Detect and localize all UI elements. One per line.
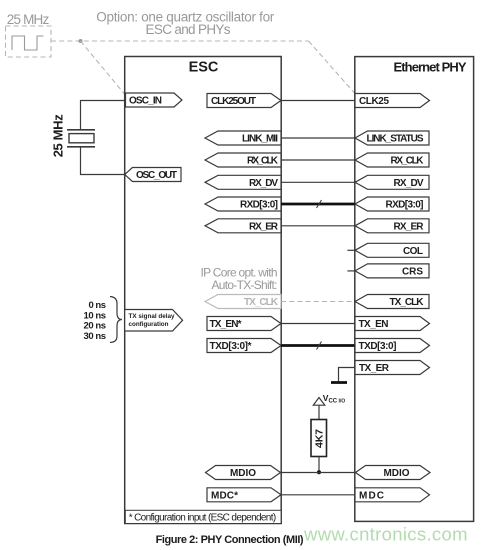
pin RX_CLK (PHY) (355, 153, 429, 167)
svg-text:TX_EN*: TX_EN* (210, 319, 242, 330)
pin MDIO (ESC, bidirectional) (206, 466, 281, 480)
wire TX_EN (281, 323, 355, 325)
stub wire COL (347, 249, 355, 251)
footnote box: Configuration input (ESC dependent) (125, 510, 281, 523)
svg-text:CLK25OUT: CLK25OUT (211, 96, 256, 107)
bus slash TXD (317, 342, 322, 350)
svg-text:RX_CLK: RX_CLK (391, 156, 425, 167)
pin CLK25OUT (207, 94, 281, 108)
pin TXD[3:0] (PHY) (355, 339, 430, 353)
svg-text:ESC and PHYs: ESC and PHYs (146, 22, 231, 37)
junction dot MDIO (317, 470, 321, 474)
pin RX_DV (ESC) (205, 175, 281, 189)
wire OSC_IN to crystal (81, 101, 126, 130)
wire RX_ER (281, 225, 355, 227)
svg-text:Figure 2: PHY Connection (MII): Figure 2: PHY Connection (MII) (156, 534, 304, 546)
svg-text:25 MHz: 25 MHz (51, 114, 66, 158)
wire CLK25OUT to CLK25 (281, 100, 355, 102)
svg-text:RX_ER: RX_ER (249, 221, 279, 232)
dashed option wire horizontal (51, 40, 309, 42)
oscillator option dashed box (6, 26, 52, 57)
pin RXD[3:0] (ESC) (205, 197, 281, 211)
pin CRS (355, 264, 429, 278)
svg-text:TX_EN: TX_EN (359, 319, 389, 330)
svg-text:Auto-TX-Shift:: Auto-TX-Shift: (212, 278, 278, 292)
pin MDIO (PHY, bidirectional) (356, 466, 431, 480)
wire VCC to resistor (318, 405, 320, 419)
svg-text:OSC_IN: OSC_IN (129, 96, 162, 107)
ESC box U1 (125, 57, 282, 524)
pin OSC_OUT (125, 168, 181, 182)
pin TX_ER (PHY) (355, 361, 430, 375)
pin RX_ER (PHY) (355, 219, 429, 233)
svg-text:RX_DV: RX_DV (394, 178, 424, 189)
pin LINK_STATUS (355, 131, 429, 145)
svg-text:TX_ER: TX_ER (359, 363, 390, 374)
svg-text:4K7: 4K7 (314, 429, 326, 448)
bus slash RXD (317, 200, 322, 208)
svg-text:LINK_MII: LINK_MII (242, 134, 278, 145)
bus wire RXD (281, 203, 355, 206)
pin CLK25 (355, 94, 430, 108)
oscillator square wave symbol (12, 36, 44, 50)
svg-text:RX_DV: RX_DV (249, 178, 278, 189)
svg-text:CRS: CRS (402, 267, 423, 278)
VCC I/O supply symbol (313, 398, 325, 406)
wire MDIO (281, 472, 356, 474)
dashed option wire to OSC_IN (81, 41, 125, 94)
dashed wire TX_CLK (281, 301, 355, 303)
svg-text:RX_ER: RX_ER (394, 221, 425, 232)
svg-text:ESC: ESC (189, 60, 219, 76)
pin TX_CLK (ESC, grey optional) (205, 295, 281, 309)
pin TX_CLK (PHY) (355, 295, 429, 309)
svg-text:TX_CLK: TX_CLK (244, 297, 279, 308)
svg-text:TX_CLK: TX_CLK (390, 297, 425, 308)
dashed option wire to CLK25 (309, 41, 355, 93)
pin MDC (PHY) (355, 488, 430, 502)
pin RX_ER (ESC) (205, 219, 281, 233)
wire resistor to MDIO net (318, 457, 320, 473)
svg-text:RX_CLK: RX_CLK (247, 156, 279, 167)
pin TX_EN* (207, 317, 281, 331)
svg-text:TXD[3:0]: TXD[3:0] (359, 341, 397, 352)
stub wire CRS (347, 270, 355, 272)
svg-text:www.cntronics.com: www.cntronics.com (303, 524, 468, 545)
pin LINK_MII (205, 131, 281, 145)
svg-text:RXD[3:0]: RXD[3:0] (240, 200, 278, 211)
wire crystal to OSC_OUT (81, 147, 125, 175)
pin COL (355, 243, 429, 257)
svg-text:CLK25: CLK25 (359, 96, 389, 107)
pin TX signal delay configuration (125, 310, 183, 332)
Ethernet PHY box U2 (355, 57, 474, 522)
wire LINK (281, 137, 355, 139)
svg-text:LINK_STATUS: LINK_STATUS (367, 134, 424, 145)
pin TX_EN (PHY) (355, 317, 430, 331)
svg-text:25 MHz: 25 MHz (7, 12, 50, 27)
bus wire TXD (281, 344, 355, 347)
tie-low bar (GND) (331, 381, 347, 384)
svg-text:OSC_OUT: OSC_OUT (136, 170, 177, 181)
resistor R1 4K7 (311, 420, 327, 457)
svg-text:MDC: MDC (359, 490, 384, 501)
svg-text:COL: COL (403, 246, 423, 257)
crystal Y1 25 MHz (67, 129, 95, 131)
svg-text:* Configuration input (ESC dep: * Configuration input (ESC dependent) (129, 512, 277, 523)
svg-text:MDC*: MDC* (211, 490, 238, 501)
pin MDC* (207, 488, 281, 502)
svg-text:configuration: configuration (129, 321, 169, 328)
svg-text:Ethernet PHY: Ethernet PHY (394, 60, 467, 75)
wire MDC (281, 494, 355, 496)
wire RX_DV (281, 181, 355, 183)
stub wire TX_ER to tie-low (339, 368, 356, 382)
svg-text:MDIO: MDIO (230, 468, 256, 479)
svg-text:TX signal delay: TX signal delay (129, 313, 175, 320)
svg-text:RXD[3:0]: RXD[3:0] (386, 200, 424, 211)
pin RXD[3:0] (PHY) (355, 197, 429, 211)
svg-text:30 ns: 30 ns (84, 331, 107, 342)
curly brace (110, 297, 122, 343)
pin RX_CLK (ESC) (205, 153, 281, 167)
svg-text:TXD[3:0]*: TXD[3:0]* (210, 341, 252, 352)
wire RX_CLK (281, 159, 355, 161)
dashed option wire junction dot (79, 39, 83, 43)
pin RX_DV (PHY) (355, 175, 429, 189)
svg-text:MDIO: MDIO (384, 468, 410, 479)
pin OSC_IN (126, 93, 183, 107)
pin TXD[3:0]* (207, 339, 281, 353)
